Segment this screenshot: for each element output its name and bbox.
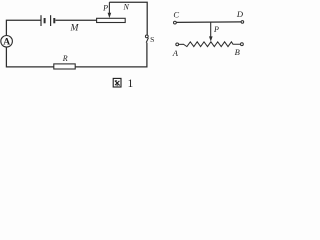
svg-text:S: S [150, 35, 154, 44]
wire ammeter down and along bottom to resistor R [6, 47, 53, 67]
switch S [145, 35, 148, 43]
svg-text:A: A [3, 38, 10, 48]
terminal D [236, 9, 244, 23]
terminal A [172, 43, 179, 58]
svg-text:D: D [236, 9, 244, 19]
caption 图 1 [113, 78, 133, 90]
battery cells [41, 15, 54, 26]
wire battery to rheostat [56, 19, 97, 21]
resistor R body [54, 64, 75, 69]
svg-text:R: R [62, 54, 68, 63]
svg-text:P: P [213, 25, 219, 34]
svg-text:1: 1 [128, 78, 134, 90]
wiper arrow P (right diagram) [209, 22, 213, 41]
terminal B [235, 43, 244, 57]
svg-text:B: B [235, 47, 240, 57]
svg-text:N: N [123, 2, 130, 11]
terminal C [173, 10, 179, 24]
svg-text:M: M [70, 24, 80, 34]
svg-text:C: C [173, 10, 179, 20]
svg-text:P: P [102, 3, 108, 12]
rheostat body M-N [97, 18, 126, 22]
wire wiper up across to right side [109, 2, 147, 35]
svg-text:A: A [172, 48, 179, 58]
wire switch down and along bottom to resistor [75, 43, 146, 67]
wire C to D [176, 21, 241, 24]
wire top-left from battery to corner down to ammeter [6, 20, 40, 35]
ammeter A [1, 36, 13, 48]
wiper arrow P onto rheostat [108, 2, 112, 18]
resistance element zigzag A-B [179, 42, 241, 47]
